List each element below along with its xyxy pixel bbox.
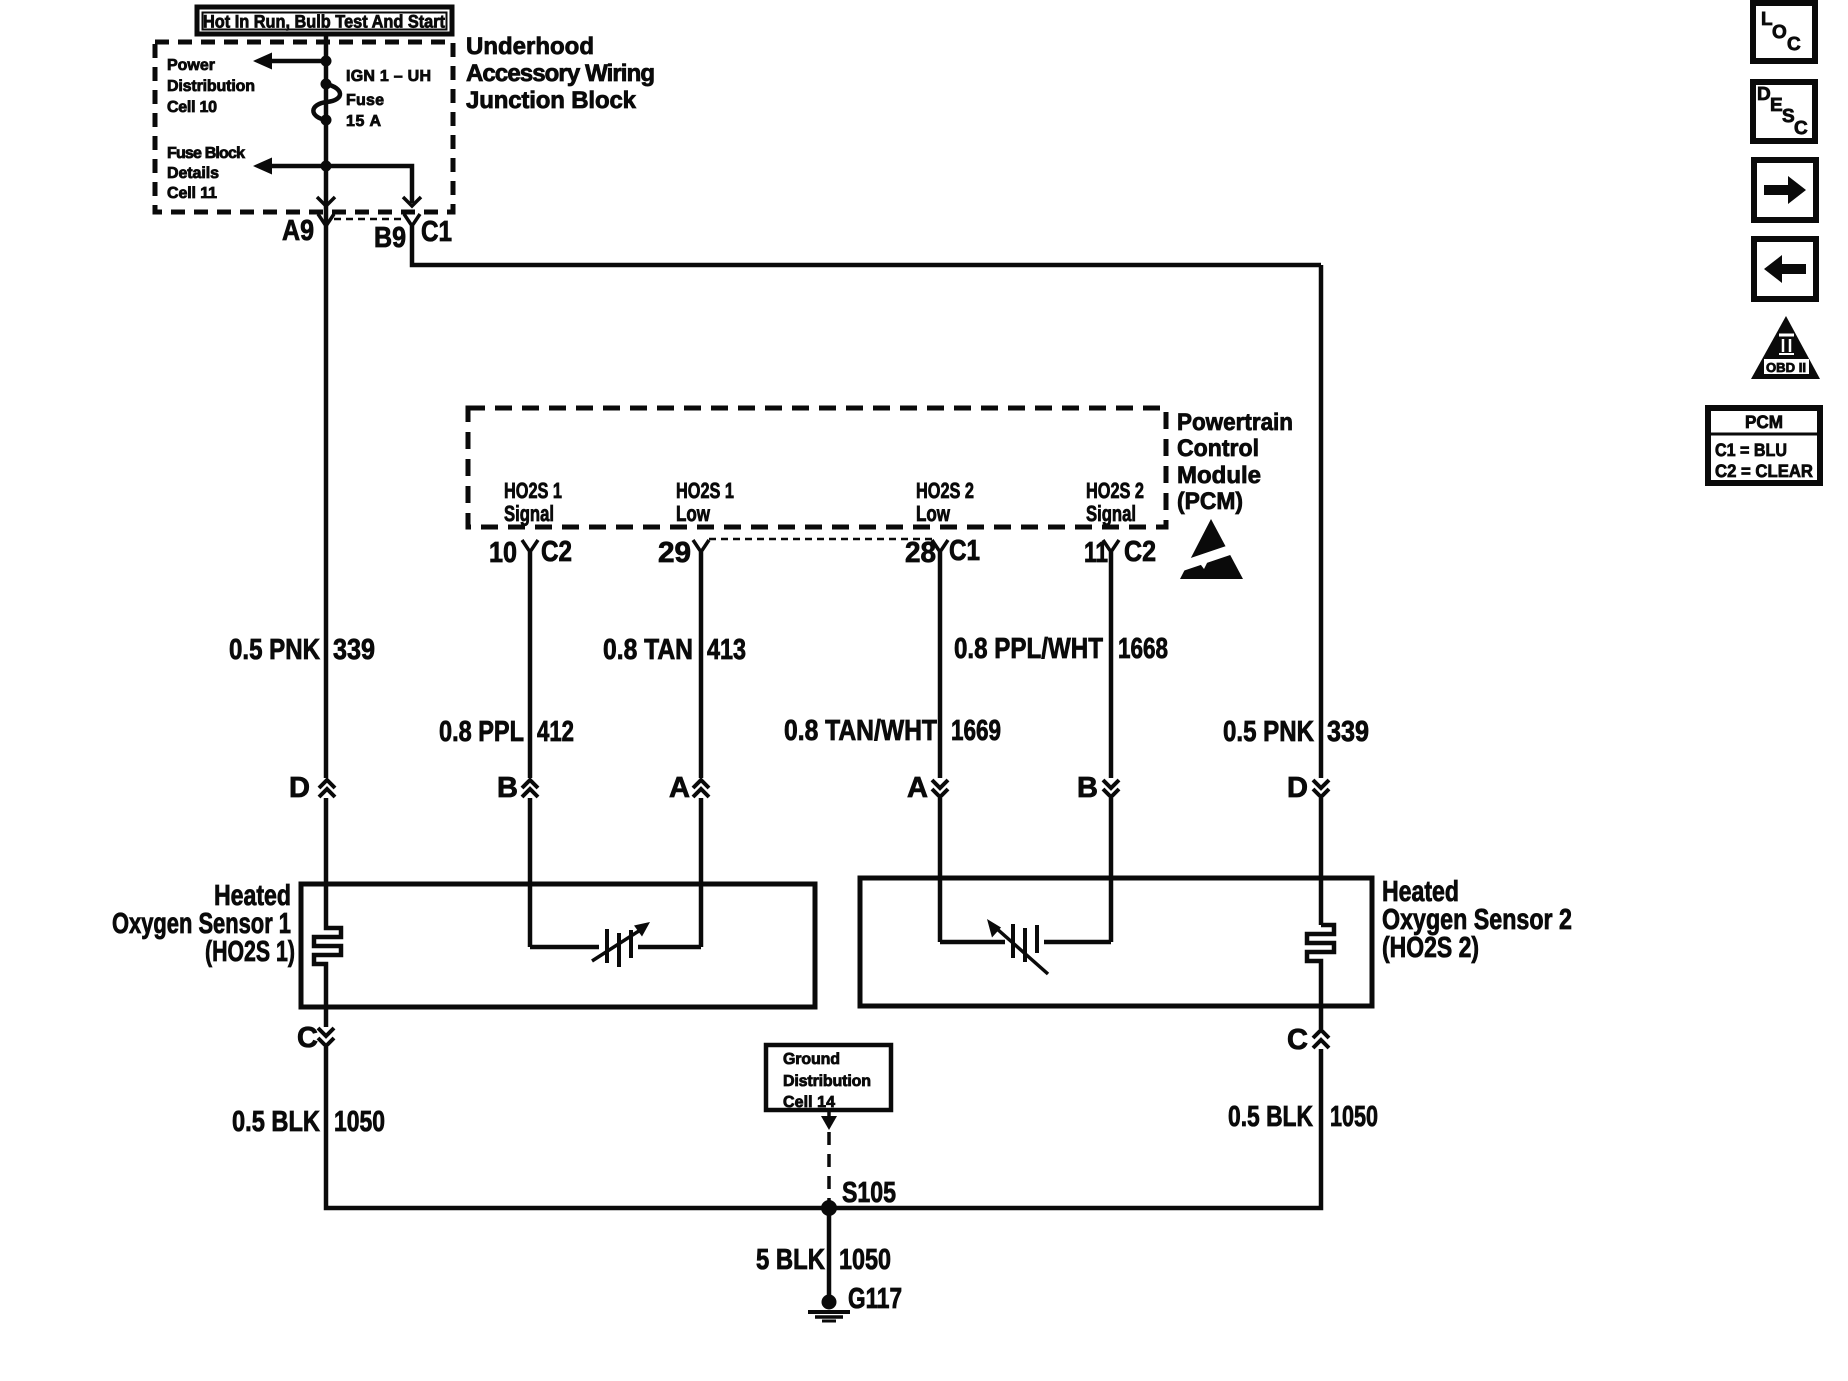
underhood junction block dashed box: [155, 42, 453, 212]
connector arrowhead B9: [403, 197, 421, 206]
svg-text:A: A: [907, 772, 928, 804]
svg-text:0.5 PNK: 0.5 PNK: [1223, 716, 1314, 748]
label fuse block details cell 11: [167, 145, 245, 202]
svg-text:C1: C1: [421, 216, 452, 248]
svg-text:Hot In Run, Bulb Test And Star: Hot In Run, Bulb Test And Start: [203, 12, 445, 32]
label HO2S2 signal pin: [1086, 478, 1144, 526]
connector chevrons B up left: [522, 780, 538, 797]
svg-text:B: B: [497, 772, 518, 804]
node S105 splice: [821, 1200, 837, 1216]
wire HO2S1 signal pin10: [528, 552, 533, 778]
label heated oxygen sensor 2: [1382, 876, 1572, 964]
svg-text:C1 = BLU: C1 = BLU: [1715, 440, 1787, 460]
wire B9 to PCM top feed: [412, 226, 1321, 265]
margin icon DESC: [1753, 82, 1815, 141]
svg-text:A: A: [669, 772, 690, 804]
svg-text:OBD II: OBD II: [1766, 360, 1806, 375]
label wire 0.8 PPL/WHT 1668: [954, 633, 1168, 665]
connector Y pin 28 C1: [932, 540, 948, 552]
connector chevrons A down right: [932, 780, 948, 797]
svg-text:15 A: 15 A: [346, 113, 381, 130]
svg-text:Ground: Ground: [783, 1051, 840, 1068]
ESD symbol: [1170, 519, 1243, 579]
wire right ground run: [829, 1049, 1321, 1208]
svg-text:413: 413: [707, 634, 746, 666]
margin icon OBD II triangle: [1751, 316, 1820, 379]
connector chevrons C up right: [1313, 1030, 1329, 1048]
svg-text:IGN 1 – UH: IGN 1 – UH: [346, 68, 431, 85]
wire HO2S2 low pin28: [938, 552, 943, 778]
svg-text:B: B: [1077, 772, 1098, 804]
wire S105 to G117: [827, 1208, 832, 1296]
HO2S2 heater element: [1307, 925, 1334, 1006]
wire D to HO2S1: [324, 798, 329, 884]
svg-text:(HO2S 1): (HO2S 1): [205, 936, 295, 968]
svg-text:Accessory Wiring: Accessory Wiring: [466, 60, 655, 87]
svg-text:339: 339: [333, 634, 375, 666]
ground G117 symbol: [808, 1295, 850, 1322]
HO2S1 heater element: [314, 884, 341, 1007]
wire B into HO2S1: [528, 798, 533, 947]
svg-text:10: 10: [489, 537, 517, 569]
svg-text:(HO2S 2): (HO2S 2): [1382, 932, 1479, 964]
svg-text:Details: Details: [167, 165, 219, 182]
label HO2S1 signal pin: [504, 478, 562, 526]
ground distribution box: [766, 1045, 891, 1110]
wire branch to B9: [326, 166, 412, 203]
hot-in-run title box: [197, 7, 452, 34]
svg-text:1668: 1668: [1118, 633, 1168, 665]
svg-text:B9: B9: [374, 222, 406, 254]
node junction fuse output: [321, 161, 332, 172]
margin icon LOC: [1753, 3, 1815, 61]
connector chevrons C down left: [318, 1028, 334, 1046]
svg-text:Fuse Block: Fuse Block: [167, 145, 245, 162]
svg-text:O: O: [1772, 22, 1787, 43]
svg-text:Junction Block: Junction Block: [466, 87, 637, 114]
svg-text:Distribution: Distribution: [783, 1073, 871, 1090]
HO2S1 sense cell wires: [530, 945, 701, 950]
HO2S1 sense cell variable arrow: [592, 922, 650, 961]
svg-text:5 BLK: 5 BLK: [756, 1244, 825, 1276]
svg-text:G117: G117: [848, 1283, 902, 1315]
HO2S2 sense cell plates: [1013, 924, 1037, 962]
svg-text:D: D: [1757, 84, 1771, 105]
margin icon arrow right: [1754, 160, 1816, 220]
connector chevrons A up left: [693, 780, 709, 797]
label heated oxygen sensor 1: [112, 880, 295, 968]
svg-text:Power: Power: [167, 57, 215, 74]
svg-text:0.5 PNK: 0.5 PNK: [229, 634, 320, 666]
svg-text:Low: Low: [916, 501, 951, 526]
svg-text:1050: 1050: [334, 1106, 385, 1138]
wire in-connector dashed link A9-B9: [334, 218, 404, 221]
svg-text:Powertrain: Powertrain: [1177, 409, 1293, 436]
wire HO2S2 ground out: [1319, 1006, 1324, 1029]
wire ignition feed from hot box: [324, 34, 329, 778]
label HO2S2 low pin: [916, 478, 974, 526]
label underhood accessory wiring junction block: [466, 33, 655, 114]
connector Y pin 10 C2: [522, 540, 538, 552]
wire HO2S1 low pin29: [699, 552, 704, 778]
svg-text:C: C: [297, 1022, 318, 1054]
wire right trunk upper: [1319, 265, 1324, 778]
svg-text:Cell 14: Cell 14: [783, 1094, 835, 1111]
svg-text:C: C: [1794, 118, 1808, 139]
svg-text:28: 28: [905, 537, 936, 569]
connector Y A9: [318, 214, 334, 226]
wire A into HO2S1: [699, 798, 704, 947]
label wire 0.5 BLK 1050 left: [232, 1106, 385, 1138]
svg-text:1050: 1050: [1330, 1101, 1378, 1133]
wire in-connector dashed link pin29-pin28: [709, 538, 932, 541]
svg-text:0.8 TAN/WHT: 0.8 TAN/WHT: [784, 715, 937, 747]
svg-text:E: E: [1770, 95, 1783, 116]
svg-text:S105: S105: [842, 1177, 896, 1209]
wire D into HO2S2: [1319, 798, 1324, 925]
label wire 0.5 PNK 339 left: [229, 634, 375, 666]
svg-text:Cell 10: Cell 10: [167, 99, 217, 116]
svg-text:HO2S 1: HO2S 1: [504, 478, 562, 503]
connector arrowhead A9: [317, 197, 335, 206]
HO2S1 box: [301, 884, 815, 1007]
label wire 0.5 BLK 1050 right: [1228, 1101, 1378, 1133]
PCM dashed box: [468, 408, 1166, 527]
svg-text:Low: Low: [676, 501, 711, 526]
wire HO2S1 ground out: [324, 1007, 329, 1027]
svg-text:Cell 11: Cell 11: [167, 185, 217, 202]
svg-text:1050: 1050: [839, 1244, 891, 1276]
svg-text:S: S: [1782, 106, 1795, 127]
label powertrain control module PCM: [1177, 409, 1293, 515]
connector chevrons D down right: [1313, 780, 1329, 797]
node junction fuse top feed: [321, 56, 332, 67]
connector Y B9: [404, 214, 420, 226]
connector chevrons D up left: [319, 780, 335, 797]
svg-text:Fuse: Fuse: [346, 92, 384, 109]
label IGN 1-UH fuse 15A: [346, 68, 431, 130]
PCM connector legend box: [1708, 408, 1820, 483]
label wire 0.8 PPL 412: [439, 716, 574, 748]
label wire 0.8 TAN 413: [603, 634, 746, 666]
HO2S2 box: [860, 878, 1372, 1006]
svg-text:C2: C2: [541, 536, 572, 568]
svg-text:PCM: PCM: [1745, 412, 1783, 432]
svg-text:D: D: [1287, 772, 1308, 804]
label wire 5 BLK 1050: [756, 1244, 891, 1276]
wire dashed to S105: [827, 1112, 831, 1202]
svg-text:0.5 BLK: 0.5 BLK: [1228, 1101, 1313, 1133]
svg-text:C: C: [1787, 34, 1801, 55]
HO2S1 sense cell plates: [607, 929, 631, 967]
wire left ground run: [326, 1047, 829, 1208]
svg-text:Module: Module: [1177, 462, 1261, 489]
svg-text:0.8 PPL/WHT: 0.8 PPL/WHT: [954, 633, 1103, 665]
HO2S2 sense cell wires: [940, 940, 1111, 945]
svg-text:C1: C1: [949, 535, 980, 567]
svg-text:Signal: Signal: [504, 501, 554, 526]
svg-text:1669: 1669: [951, 715, 1001, 747]
label ground distribution cell 14: [783, 1051, 871, 1111]
svg-text:Underhood: Underhood: [466, 33, 594, 60]
wire B into HO2S2: [1109, 798, 1114, 942]
svg-text:0.5 BLK: 0.5 BLK: [232, 1106, 320, 1138]
wire arrow to fuse block details: [253, 158, 326, 175]
svg-text:11: 11: [1084, 537, 1108, 569]
svg-text:0.8 TAN: 0.8 TAN: [603, 634, 693, 666]
label power distribution cell 10: [167, 57, 255, 116]
svg-text:Distribution: Distribution: [167, 78, 255, 95]
wire A into HO2S2: [938, 798, 943, 942]
svg-text:0.8 PPL: 0.8 PPL: [439, 716, 524, 748]
svg-text:(PCM): (PCM): [1177, 488, 1243, 515]
margin icon arrow left: [1754, 239, 1816, 299]
svg-text:339: 339: [1327, 716, 1369, 748]
label wire 0.5 PNK 339 right: [1223, 716, 1369, 748]
svg-text:D: D: [289, 772, 310, 804]
ground distribution arrowhead: [821, 1116, 837, 1130]
connector chevrons B down right: [1103, 780, 1119, 797]
svg-text:HO2S 2: HO2S 2: [1086, 478, 1144, 503]
svg-text:C2: C2: [1124, 536, 1156, 568]
connector Y pin 29: [693, 540, 709, 552]
svg-text:HO2S 2: HO2S 2: [916, 478, 974, 503]
svg-text:C2 = CLEAR: C2 = CLEAR: [1715, 461, 1813, 481]
svg-text:Control: Control: [1177, 435, 1259, 462]
HO2S2 sense cell variable arrow: [987, 919, 1048, 974]
svg-text:Signal: Signal: [1086, 501, 1136, 526]
svg-text:HO2S 1: HO2S 1: [676, 478, 734, 503]
connector Y pin 11 C2: [1103, 540, 1119, 552]
svg-text:A9: A9: [282, 215, 314, 247]
wire arrow to power distribution: [253, 53, 326, 70]
label HO2S1 low pin: [676, 478, 734, 526]
fuse IGN1-UH 15A: [313, 79, 340, 126]
wire HO2S2 signal pin11: [1109, 552, 1114, 778]
svg-text:C: C: [1287, 1024, 1308, 1056]
svg-text:29: 29: [658, 537, 691, 569]
label wire 0.8 TAN/WHT 1669: [784, 715, 1001, 747]
svg-text:412: 412: [537, 716, 574, 748]
